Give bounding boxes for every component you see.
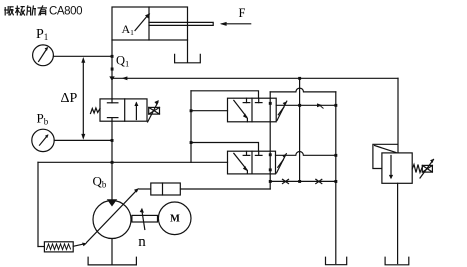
svg-text:P1: P1 xyxy=(36,27,48,42)
svg-text:Qb: Qb xyxy=(93,174,107,190)
svg-text:Q1: Q1 xyxy=(116,54,129,69)
svg-text:CA800: CA800 xyxy=(49,5,82,17)
svg-text:ΔP: ΔP xyxy=(61,91,78,106)
svg-text:A1: A1 xyxy=(122,22,135,37)
svg-text:Pb: Pb xyxy=(37,111,49,127)
svg-text:F: F xyxy=(239,6,246,20)
svg-text:n: n xyxy=(138,234,146,250)
svg-text:M: M xyxy=(170,214,180,225)
